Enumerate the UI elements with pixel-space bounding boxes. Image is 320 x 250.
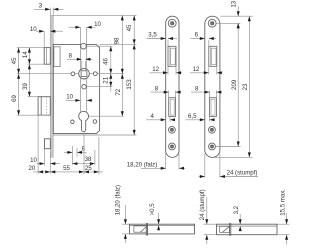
section 2 lug box <box>220 226 230 232</box>
deadbolt face line <box>40 97 42 116</box>
svg-text:20: 20 <box>29 165 36 172</box>
ext line deadbolt face down <box>37 115 39 174</box>
dim 6 (plate2 latch cutout offset) <box>191 38 205 40</box>
dim col left inner: 14 and 39 <box>28 48 30 97</box>
follower with square spindle hole <box>79 68 90 79</box>
svg-text:6,5: 6,5 <box>188 113 197 120</box>
svg-text:12: 12 <box>193 66 200 73</box>
svg-text:25: 25 <box>85 165 92 172</box>
svg-text:38: 38 <box>85 156 92 163</box>
ext line: cylinder axis to col B <box>89 115 124 117</box>
svg-text:45: 45 <box>11 57 18 64</box>
ext line: faceplate top to right dim columns <box>53 14 136 16</box>
ext line: case top to col C <box>100 43 137 45</box>
ext line: top hole to col A <box>87 45 113 47</box>
dim 8 plate1 (deadbolt cutout width) <box>151 91 169 93</box>
latch guide box inside case <box>54 47 60 67</box>
plate2 top screw hole <box>208 19 216 27</box>
dim 13 (top hole offset) <box>237 6 239 16</box>
svg-text:69: 69 <box>11 95 18 102</box>
dim chain 20 55 25 <box>33 171 103 173</box>
ext line plates top to col 13/239 <box>221 15 253 17</box>
section 2 bar (stumpf profile) <box>217 224 278 235</box>
svg-text:21: 21 <box>103 76 110 83</box>
dim 8 plate2 (deadbolt cutout width) <box>191 91 210 93</box>
top screw hole in case <box>81 43 87 49</box>
svg-text:72: 72 <box>115 88 122 95</box>
plate1 deadbolt cutout <box>169 98 176 117</box>
svg-text:>0,5: >0,5 <box>149 203 156 216</box>
deadbolt (protrudes left of faceplate) <box>38 97 50 116</box>
dim 8 (follower square) <box>67 58 82 60</box>
ext line faceplate front down <box>49 152 51 174</box>
latch bolt head (protrudes left of faceplate) <box>44 48 50 65</box>
dim 209 (screw hole distance) <box>237 23 239 146</box>
svg-text:14: 14 <box>22 51 29 58</box>
ext line: hole below follower to col A <box>86 86 112 88</box>
svg-text:3,2: 3,2 <box>233 205 240 214</box>
dim 10 (slot width below follower) <box>66 99 80 101</box>
section 2 lug end double vertical <box>229 223 231 236</box>
dim 10 (lug protrusion) <box>37 163 45 165</box>
dim 3 (faceplate thickness) <box>34 8 51 10</box>
section 2 double top line <box>217 225 278 227</box>
hole below follower <box>82 85 86 89</box>
dim 18,20 (falz) plate1 width <box>141 167 166 169</box>
svg-text:24 (stumpf): 24 (stumpf) <box>227 170 258 177</box>
plate1 bottom screw hole <box>169 143 176 150</box>
section 1 lug end double vertical <box>145 223 147 236</box>
svg-text:98: 98 <box>114 37 121 44</box>
dim 24 (stumpf) plate2 width <box>199 176 205 178</box>
svg-text:10: 10 <box>94 21 101 28</box>
svg-text:24 (stumpf): 24 (stumpf) <box>199 189 206 220</box>
plate2 deadbolt cutout <box>210 98 217 117</box>
plate1 latch cutout <box>168 46 176 66</box>
dim 18,20 (falz) section height <box>124 205 126 224</box>
section 1 lug diagonal <box>140 226 147 232</box>
ext line: deadbolt top <box>28 96 38 98</box>
dim 4 plate1 <box>146 119 166 121</box>
plate2 latch cutout <box>209 46 217 66</box>
euro profile cylinder hole <box>79 111 89 131</box>
svg-text:10: 10 <box>30 26 37 33</box>
plate1 top screw hole <box>168 19 176 27</box>
svg-text:18,20 (falz): 18,20 (falz) <box>114 185 121 215</box>
ext line: follower axis to left and right <box>17 73 79 75</box>
faceplate view 1 (falz) body <box>166 16 179 157</box>
svg-text:13: 13 <box>231 0 238 7</box>
svg-text:45: 45 <box>126 24 133 31</box>
dim 12 plate2 (latch cutout width) <box>190 72 209 74</box>
faceplate view 2 (stumpf) body <box>205 16 220 157</box>
svg-text:39: 39 <box>22 83 29 90</box>
latch bolt bevel line <box>45 48 47 65</box>
svg-text:10: 10 <box>30 157 37 164</box>
ext line: latch bottom <box>28 63 45 65</box>
ext line: latch top to left dim columns <box>17 47 44 49</box>
dim 10 (latch protrusion) <box>36 30 44 32</box>
svg-text:3: 3 <box>38 3 42 10</box>
vertical slot lines through follower to cylinder <box>79 27 81 111</box>
svg-text:8: 8 <box>195 85 199 92</box>
plate1 middle screw hole <box>169 126 176 133</box>
plate2 middle screw hole <box>209 126 216 133</box>
section 1 bar (falz profile) <box>130 224 195 234</box>
svg-text:3,5: 3,5 <box>148 32 157 39</box>
svg-text:12: 12 <box>152 66 159 73</box>
dim col A right: 46 and 21 <box>110 46 112 91</box>
ext line: deadbolt bottom <box>17 114 50 116</box>
dim col B right: 98 and 72 <box>121 15 123 116</box>
dim 38 (cylinder fixing holes distance) <box>72 163 95 165</box>
cylinder side hole left <box>71 120 75 124</box>
dim 3,2 sheet thickness <box>239 214 241 224</box>
dim 3,5 (plate1 latch cutout offset) <box>147 38 166 40</box>
dim 12 plate1 (latch cutout width) <box>150 72 169 74</box>
ext line plate2 top hole to col 13 <box>216 22 240 24</box>
section 2 lug diagonal <box>222 226 229 232</box>
follower side hole left <box>71 72 75 76</box>
dim 10 (slot width) <box>69 26 81 28</box>
svg-text:4: 4 <box>151 113 155 120</box>
svg-text:23: 23 <box>242 83 249 90</box>
section 1 lug box <box>134 226 148 232</box>
follower side hole right <box>93 72 97 76</box>
faceplate lower lug <box>45 139 51 149</box>
svg-text:15,5 max.: 15,5 max. <box>279 189 286 216</box>
plate2 bottom screw hole <box>209 143 216 150</box>
lock case second bottom line <box>53 134 136 136</box>
dim 239 (plate total length) <box>248 16 250 157</box>
svg-text:153: 153 <box>126 79 133 90</box>
svg-text:18,20 (falz): 18,20 (falz) <box>127 161 157 168</box>
dim 15,5 max section inner height <box>286 213 288 224</box>
section 1 double top line <box>130 224 195 226</box>
svg-text:55: 55 <box>63 165 70 172</box>
dim >0,5 step <box>158 213 160 225</box>
faceplate strip (front view, left) <box>50 15 53 157</box>
dim col C right: 45 and 153 <box>133 15 135 134</box>
svg-text:10: 10 <box>66 94 73 101</box>
dim 6,5 plate2 <box>186 119 205 121</box>
svg-text:209: 209 <box>231 79 238 90</box>
cylinder side hole right <box>93 120 97 124</box>
ext line follower axis down <box>83 132 85 174</box>
svg-text:8: 8 <box>155 85 159 92</box>
svg-text:46: 46 <box>103 58 110 65</box>
deadbolt hidden line (dashed) <box>46 97 48 116</box>
dim col left outer: 45 and 69 <box>18 48 20 116</box>
dim 24 (stumpf) section height <box>206 197 208 224</box>
lock case outline <box>53 44 99 133</box>
dim 8 (bottom, cylinder fixing hole offset) <box>64 151 72 153</box>
svg-text:8: 8 <box>82 146 86 153</box>
